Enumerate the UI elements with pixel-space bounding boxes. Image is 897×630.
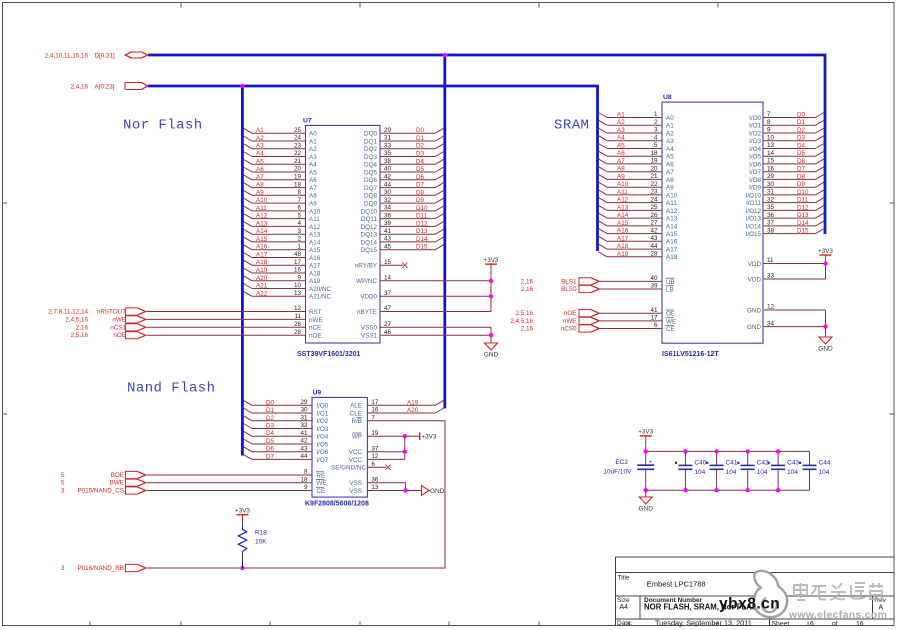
svg-text:42: 42 bbox=[300, 438, 308, 445]
svg-text:U7: U7 bbox=[303, 117, 312, 124]
svg-text:C40: C40 bbox=[694, 459, 706, 466]
svg-text:nBYTE: nBYTE bbox=[357, 309, 377, 316]
svg-text:36: 36 bbox=[767, 212, 775, 219]
svg-text:29: 29 bbox=[384, 127, 392, 134]
svg-text:I/O5: I/O5 bbox=[749, 154, 761, 161]
svg-text:A8: A8 bbox=[256, 182, 264, 189]
svg-text:A2: A2 bbox=[256, 135, 264, 142]
svg-text:P015/NAND_CS: P015/NAND_CS bbox=[77, 488, 124, 495]
svg-text:26: 26 bbox=[294, 321, 302, 328]
svg-text:A11: A11 bbox=[256, 205, 267, 212]
svg-text:13: 13 bbox=[767, 142, 775, 149]
svg-text:D6: D6 bbox=[797, 158, 806, 165]
svg-text:OE: OE bbox=[666, 311, 675, 318]
svg-text:42: 42 bbox=[650, 227, 658, 234]
svg-text:U9: U9 bbox=[313, 389, 322, 396]
svg-text:D8: D8 bbox=[416, 189, 425, 196]
svg-text:I/O4: I/O4 bbox=[316, 434, 328, 441]
svg-text:48: 48 bbox=[294, 251, 302, 258]
svg-text:41: 41 bbox=[300, 430, 308, 437]
svg-text:44: 44 bbox=[650, 243, 658, 250]
svg-text:nCS0: nCS0 bbox=[561, 326, 577, 333]
svg-text:A7: A7 bbox=[309, 185, 317, 192]
svg-text:I/O0: I/O0 bbox=[316, 403, 328, 410]
svg-text:23: 23 bbox=[294, 142, 302, 149]
svg-text:18: 18 bbox=[300, 476, 308, 483]
svg-text:3: 3 bbox=[61, 565, 65, 572]
svg-text:SST39VF1601/3201: SST39VF1601/3201 bbox=[297, 351, 361, 358]
svg-text:GND: GND bbox=[638, 506, 653, 513]
svg-text:3: 3 bbox=[654, 127, 658, 134]
svg-text:RE: RE bbox=[316, 472, 325, 479]
svg-text:Title: Title bbox=[618, 575, 630, 582]
svg-text:A0: A0 bbox=[309, 131, 317, 138]
svg-text:25: 25 bbox=[650, 204, 658, 211]
svg-text:A9: A9 bbox=[309, 201, 317, 208]
svg-text:A2: A2 bbox=[617, 119, 625, 126]
svg-text:DQ14: DQ14 bbox=[361, 239, 378, 246]
svg-text:GND: GND bbox=[747, 324, 761, 331]
svg-text:104: 104 bbox=[694, 469, 705, 476]
svg-text:U8: U8 bbox=[663, 94, 672, 101]
svg-text:D11: D11 bbox=[416, 213, 428, 220]
svg-text:nRSTOUT: nRSTOUT bbox=[97, 309, 126, 316]
svg-text:WE: WE bbox=[666, 318, 676, 325]
svg-text:D9: D9 bbox=[416, 197, 425, 204]
svg-text:nWE: nWE bbox=[309, 317, 323, 324]
svg-text:2,5,16: 2,5,16 bbox=[70, 332, 88, 339]
svg-text:D0: D0 bbox=[266, 399, 275, 406]
svg-text:www.elecfans.com: www.elecfans.com bbox=[788, 610, 887, 621]
svg-text:I/O2: I/O2 bbox=[749, 130, 761, 137]
svg-text:D7: D7 bbox=[416, 182, 425, 189]
svg-text:17: 17 bbox=[650, 315, 658, 322]
svg-text:DQ5: DQ5 bbox=[364, 169, 377, 176]
svg-text:28: 28 bbox=[294, 329, 302, 336]
svg-text:23: 23 bbox=[650, 189, 658, 196]
svg-text:nCE: nCE bbox=[309, 325, 321, 332]
svg-text:8: 8 bbox=[304, 469, 308, 476]
svg-text:GND: GND bbox=[430, 488, 445, 495]
svg-text:nOE: nOE bbox=[309, 333, 322, 340]
svg-text:Size: Size bbox=[617, 597, 630, 604]
svg-text:D7: D7 bbox=[797, 166, 806, 173]
svg-text:9: 9 bbox=[297, 275, 301, 282]
svg-text:A15: A15 bbox=[256, 236, 268, 243]
svg-text:19: 19 bbox=[650, 158, 658, 165]
svg-text:40: 40 bbox=[384, 166, 392, 173]
svg-text:CE: CE bbox=[316, 488, 325, 495]
svg-text:A2: A2 bbox=[666, 130, 674, 137]
svg-text:A11: A11 bbox=[617, 189, 628, 196]
svg-text:VCC: VCC bbox=[349, 457, 363, 464]
svg-text:C44: C44 bbox=[819, 459, 831, 466]
svg-text:A1: A1 bbox=[256, 127, 264, 134]
svg-text:22: 22 bbox=[650, 181, 658, 188]
svg-text:I/O0: I/O0 bbox=[749, 115, 761, 122]
svg-text:R/B: R/B bbox=[352, 418, 363, 425]
svg-text:D10: D10 bbox=[416, 205, 428, 212]
svg-text:A10: A10 bbox=[256, 197, 268, 204]
svg-text:DQ7: DQ7 bbox=[364, 185, 377, 192]
svg-text:BLS1: BLS1 bbox=[561, 278, 577, 285]
svg-text:EC2: EC2 bbox=[615, 459, 628, 466]
svg-text:D1: D1 bbox=[416, 135, 425, 142]
svg-text:A20/NC: A20/NC bbox=[309, 286, 332, 293]
svg-text:VSS: VSS bbox=[349, 480, 362, 487]
svg-text:A13: A13 bbox=[309, 232, 321, 239]
svg-text:20: 20 bbox=[294, 166, 302, 173]
svg-text:+: + bbox=[649, 459, 652, 465]
svg-text:Date:: Date: bbox=[617, 620, 633, 627]
svg-text:6: 6 bbox=[810, 620, 814, 627]
svg-text:A4: A4 bbox=[309, 162, 317, 169]
svg-text:I/O3: I/O3 bbox=[749, 138, 761, 145]
svg-text:I/O1: I/O1 bbox=[749, 123, 761, 130]
svg-text:17: 17 bbox=[294, 259, 302, 266]
svg-text:A0: A0 bbox=[666, 115, 674, 122]
svg-text:5: 5 bbox=[297, 212, 301, 219]
svg-text:Sheet: Sheet bbox=[772, 620, 790, 627]
svg-text:16: 16 bbox=[767, 165, 775, 172]
svg-text:13: 13 bbox=[294, 290, 302, 297]
svg-text:D9: D9 bbox=[797, 181, 806, 188]
svg-text:30: 30 bbox=[767, 181, 775, 188]
svg-text:31: 31 bbox=[300, 415, 308, 422]
svg-text:24: 24 bbox=[650, 196, 658, 203]
svg-text:6: 6 bbox=[654, 322, 658, 329]
svg-text:8: 8 bbox=[297, 189, 301, 196]
svg-text:2: 2 bbox=[297, 236, 301, 243]
svg-text:VSS0: VSS0 bbox=[361, 325, 378, 332]
svg-text:29: 29 bbox=[300, 399, 308, 406]
svg-text:LB: LB bbox=[666, 286, 674, 293]
svg-text:104: 104 bbox=[819, 469, 830, 476]
svg-text:+3V3: +3V3 bbox=[638, 429, 653, 436]
svg-text:D3: D3 bbox=[266, 423, 275, 430]
svg-text:A10: A10 bbox=[617, 181, 629, 188]
svg-text:D0: D0 bbox=[797, 112, 806, 119]
svg-text:K9F2808/5608/1208: K9F2808/5608/1208 bbox=[305, 501, 369, 508]
svg-text:ALE: ALE bbox=[350, 403, 362, 410]
svg-text:A19: A19 bbox=[256, 267, 268, 274]
svg-text:DQ6: DQ6 bbox=[364, 177, 377, 184]
svg-text:VSS: VSS bbox=[349, 488, 362, 495]
svg-text:37: 37 bbox=[767, 220, 775, 227]
svg-text:D5: D5 bbox=[416, 166, 425, 173]
svg-text:A12: A12 bbox=[666, 208, 678, 215]
svg-text:43: 43 bbox=[300, 445, 308, 452]
svg-text:2: 2 bbox=[654, 119, 658, 126]
svg-text:DQ13: DQ13 bbox=[361, 232, 378, 239]
svg-text:BLS0: BLS0 bbox=[561, 286, 577, 293]
svg-text:16: 16 bbox=[294, 267, 302, 274]
svg-text:GND: GND bbox=[818, 346, 833, 353]
svg-text:41: 41 bbox=[384, 228, 392, 235]
svg-text:A19: A19 bbox=[617, 251, 629, 258]
svg-text:2,16: 2,16 bbox=[521, 286, 534, 293]
svg-text:I/O7: I/O7 bbox=[749, 169, 761, 176]
svg-text:D15: D15 bbox=[797, 228, 809, 235]
svg-text:A10: A10 bbox=[666, 192, 678, 199]
svg-text:30: 30 bbox=[300, 407, 308, 414]
svg-text:34: 34 bbox=[384, 205, 392, 212]
svg-text:A5: A5 bbox=[256, 158, 264, 165]
svg-text:36: 36 bbox=[384, 212, 392, 219]
svg-text:D2: D2 bbox=[266, 415, 275, 422]
svg-text:A3: A3 bbox=[256, 143, 264, 150]
svg-text:2,16: 2,16 bbox=[521, 278, 534, 285]
svg-text:VDD: VDD bbox=[748, 261, 762, 268]
svg-text:I/O2: I/O2 bbox=[316, 418, 328, 425]
svg-text:VDD0: VDD0 bbox=[360, 294, 377, 301]
svg-text:A18: A18 bbox=[666, 254, 678, 261]
svg-text:D4: D4 bbox=[797, 143, 806, 150]
svg-text:D0: D0 bbox=[416, 127, 425, 134]
svg-text:4: 4 bbox=[654, 134, 658, 141]
svg-text:DQ15: DQ15 bbox=[361, 247, 378, 254]
svg-text:D14: D14 bbox=[797, 220, 809, 227]
svg-text:I/O8: I/O8 bbox=[749, 177, 761, 184]
svg-text:D2: D2 bbox=[416, 143, 425, 150]
svg-text:Nand Flash: Nand Flash bbox=[127, 381, 216, 397]
svg-text:D14: D14 bbox=[416, 236, 428, 243]
svg-text:9: 9 bbox=[304, 484, 308, 491]
svg-text:A14: A14 bbox=[666, 223, 678, 230]
svg-text:A5: A5 bbox=[666, 154, 674, 161]
svg-text:IS61LV51216-12T: IS61LV51216-12T bbox=[662, 351, 719, 358]
svg-text:VSS1: VSS1 bbox=[361, 333, 378, 340]
svg-text:nWE: nWE bbox=[112, 316, 126, 323]
svg-text:A14: A14 bbox=[309, 239, 321, 246]
svg-text:2,5,16: 2,5,16 bbox=[515, 310, 533, 317]
svg-text:2,4,5,16: 2,4,5,16 bbox=[510, 318, 533, 325]
svg-text:I/O6: I/O6 bbox=[316, 449, 328, 456]
svg-text:I/O4: I/O4 bbox=[749, 146, 761, 153]
svg-text:A7: A7 bbox=[666, 169, 674, 176]
svg-text:10uF/10V: 10uF/10V bbox=[603, 468, 632, 475]
svg-text:17: 17 bbox=[371, 399, 379, 406]
svg-text:11: 11 bbox=[294, 313, 301, 320]
svg-text:I/O15: I/O15 bbox=[746, 231, 762, 238]
svg-text:A14: A14 bbox=[617, 212, 629, 219]
svg-text:DQ4: DQ4 bbox=[364, 162, 377, 169]
svg-text:A17: A17 bbox=[617, 235, 629, 242]
svg-text:5: 5 bbox=[61, 480, 65, 487]
svg-text:D[0:31]: D[0:31] bbox=[95, 52, 116, 59]
svg-text:D3: D3 bbox=[797, 135, 806, 142]
svg-text:10: 10 bbox=[294, 282, 302, 289]
svg-text:9: 9 bbox=[767, 127, 771, 134]
svg-text:Nor Flash: Nor Flash bbox=[123, 118, 203, 134]
svg-text:A13: A13 bbox=[617, 204, 629, 211]
svg-text:A21/NC: A21/NC bbox=[309, 294, 332, 301]
svg-text:D3: D3 bbox=[416, 151, 425, 158]
svg-text:nWE: nWE bbox=[563, 318, 577, 325]
svg-text:33: 33 bbox=[384, 142, 392, 149]
svg-text:32: 32 bbox=[384, 197, 392, 204]
svg-text:I/O12: I/O12 bbox=[746, 208, 762, 215]
svg-text:+3V3: +3V3 bbox=[818, 248, 833, 255]
svg-text:32: 32 bbox=[767, 196, 775, 203]
svg-text:ybx8.cn: ybx8.cn bbox=[719, 596, 780, 613]
svg-text:A4: A4 bbox=[666, 146, 674, 153]
svg-text:A16: A16 bbox=[617, 228, 629, 235]
svg-text:A16: A16 bbox=[666, 239, 678, 246]
svg-text:I/O1: I/O1 bbox=[316, 410, 328, 417]
svg-text:DQ8: DQ8 bbox=[364, 193, 377, 200]
svg-text:CE: CE bbox=[666, 326, 675, 333]
svg-text:A7: A7 bbox=[617, 158, 625, 165]
svg-text:I/O7: I/O7 bbox=[316, 457, 328, 464]
svg-text:nOE: nOE bbox=[113, 332, 126, 339]
svg-text:A[0:23]: A[0:23] bbox=[95, 83, 115, 90]
svg-text:A15: A15 bbox=[309, 247, 321, 254]
svg-text:VDD: VDD bbox=[748, 276, 762, 283]
svg-text:D5: D5 bbox=[266, 438, 275, 445]
svg-text:39: 39 bbox=[384, 220, 392, 227]
svg-text:A6: A6 bbox=[256, 166, 264, 173]
svg-text:A12: A12 bbox=[256, 213, 268, 220]
svg-text:A17: A17 bbox=[666, 247, 678, 254]
svg-text:I/O14: I/O14 bbox=[746, 223, 762, 230]
svg-text:20: 20 bbox=[650, 165, 658, 172]
svg-text:31: 31 bbox=[767, 189, 775, 196]
svg-text:+3V3: +3V3 bbox=[484, 257, 499, 264]
svg-text:30: 30 bbox=[384, 189, 392, 196]
svg-text:31: 31 bbox=[384, 135, 392, 142]
svg-text:8: 8 bbox=[767, 119, 771, 126]
svg-text:I/O11: I/O11 bbox=[746, 200, 761, 207]
svg-text:44: 44 bbox=[300, 453, 308, 460]
svg-text:VCC: VCC bbox=[349, 449, 363, 456]
svg-text:A13: A13 bbox=[256, 220, 268, 227]
svg-text:DQ3: DQ3 bbox=[364, 154, 377, 161]
svg-text:18: 18 bbox=[650, 150, 658, 157]
svg-text:A9: A9 bbox=[256, 189, 264, 196]
svg-text:A20: A20 bbox=[407, 407, 419, 414]
svg-text:19: 19 bbox=[294, 174, 302, 181]
svg-text:A18: A18 bbox=[256, 259, 268, 266]
svg-text:A1: A1 bbox=[666, 123, 674, 130]
svg-text:DQ0: DQ0 bbox=[364, 131, 377, 138]
svg-text:A18: A18 bbox=[309, 270, 321, 277]
svg-text:A9: A9 bbox=[666, 185, 674, 192]
svg-text:GND: GND bbox=[747, 307, 761, 314]
svg-text:DQ10: DQ10 bbox=[361, 208, 378, 215]
svg-text:nRY/BY: nRY/BY bbox=[355, 263, 378, 270]
svg-text:D13: D13 bbox=[416, 228, 428, 235]
svg-text:DQ11: DQ11 bbox=[361, 216, 377, 223]
svg-text:16: 16 bbox=[856, 620, 864, 627]
svg-text:39: 39 bbox=[650, 283, 658, 290]
svg-text:A15: A15 bbox=[617, 220, 629, 227]
svg-text:A22: A22 bbox=[256, 290, 268, 297]
svg-text:35: 35 bbox=[384, 150, 392, 157]
svg-text:WP/NC: WP/NC bbox=[356, 278, 377, 285]
svg-text:26: 26 bbox=[650, 212, 658, 219]
svg-text:D7: D7 bbox=[266, 453, 275, 460]
svg-text:A5: A5 bbox=[617, 143, 625, 150]
svg-text:I/O13: I/O13 bbox=[746, 216, 762, 223]
svg-text:D4: D4 bbox=[416, 158, 425, 165]
svg-text:DQ1: DQ1 bbox=[364, 138, 377, 145]
svg-text:I/O3: I/O3 bbox=[316, 426, 328, 433]
svg-text:18: 18 bbox=[294, 181, 302, 188]
svg-text:A6: A6 bbox=[666, 161, 674, 168]
svg-text:1: 1 bbox=[654, 111, 658, 118]
svg-text:2,7,8,11,12,14: 2,7,8,11,12,14 bbox=[48, 309, 88, 316]
svg-text:2,4,5,16: 2,4,5,16 bbox=[65, 316, 88, 323]
svg-text:7: 7 bbox=[767, 111, 771, 118]
svg-text:D12: D12 bbox=[416, 220, 428, 227]
svg-text:A12: A12 bbox=[309, 224, 321, 231]
svg-text:38: 38 bbox=[384, 158, 392, 165]
svg-text:I/O6: I/O6 bbox=[749, 161, 761, 168]
svg-text:A17: A17 bbox=[309, 263, 321, 270]
svg-text:28: 28 bbox=[650, 251, 658, 258]
svg-text:5: 5 bbox=[61, 472, 65, 479]
svg-text:7: 7 bbox=[297, 197, 301, 204]
svg-text:D12: D12 bbox=[797, 204, 809, 211]
svg-text:5: 5 bbox=[654, 142, 658, 149]
svg-text:29: 29 bbox=[767, 173, 775, 180]
svg-text:16: 16 bbox=[371, 407, 379, 414]
svg-text:A6: A6 bbox=[617, 150, 625, 157]
svg-text:P016/NAND_RB: P016/NAND_RB bbox=[77, 565, 124, 572]
svg-text:2,16: 2,16 bbox=[76, 324, 89, 331]
svg-text:A3: A3 bbox=[666, 138, 674, 145]
svg-text:44: 44 bbox=[384, 181, 392, 188]
svg-text:A11: A11 bbox=[309, 216, 320, 223]
svg-text:1: 1 bbox=[297, 243, 301, 250]
svg-text:D1: D1 bbox=[266, 407, 275, 414]
svg-text:RST: RST bbox=[309, 309, 322, 316]
svg-text:25: 25 bbox=[294, 127, 302, 134]
svg-text:I/O10: I/O10 bbox=[746, 192, 762, 199]
svg-text:104: 104 bbox=[726, 469, 737, 476]
svg-text:C41: C41 bbox=[726, 459, 738, 466]
svg-text:WP: WP bbox=[352, 434, 362, 441]
svg-text:D13: D13 bbox=[797, 212, 809, 219]
svg-text:A11: A11 bbox=[666, 200, 677, 207]
svg-text:D4: D4 bbox=[266, 430, 275, 437]
svg-text:21: 21 bbox=[650, 173, 658, 180]
svg-text:A2: A2 bbox=[309, 146, 317, 153]
svg-text:6: 6 bbox=[297, 205, 301, 212]
svg-text:D11: D11 bbox=[797, 197, 809, 204]
svg-text:nCS1: nCS1 bbox=[110, 324, 126, 331]
svg-text:41: 41 bbox=[650, 307, 658, 314]
svg-text:A7: A7 bbox=[256, 174, 264, 181]
svg-text:38: 38 bbox=[767, 227, 775, 234]
svg-text:C42: C42 bbox=[757, 459, 769, 466]
svg-text:15: 15 bbox=[767, 158, 775, 165]
svg-text:D5: D5 bbox=[797, 150, 806, 157]
svg-text:A13: A13 bbox=[666, 216, 678, 223]
svg-text:14: 14 bbox=[767, 150, 775, 157]
svg-text:BWE: BWE bbox=[110, 480, 124, 487]
svg-text:SE/GND/NC: SE/GND/NC bbox=[331, 465, 366, 472]
svg-text:Embest LPC1788: Embest LPC1788 bbox=[647, 580, 706, 589]
svg-text:I/O9: I/O9 bbox=[749, 185, 761, 192]
svg-text:104: 104 bbox=[757, 469, 768, 476]
svg-text:+3V3: +3V3 bbox=[422, 433, 437, 440]
svg-text:I/O5: I/O5 bbox=[316, 441, 328, 448]
svg-text:A8: A8 bbox=[666, 177, 674, 184]
svg-text:A12: A12 bbox=[617, 197, 629, 204]
svg-text:3: 3 bbox=[61, 488, 65, 495]
